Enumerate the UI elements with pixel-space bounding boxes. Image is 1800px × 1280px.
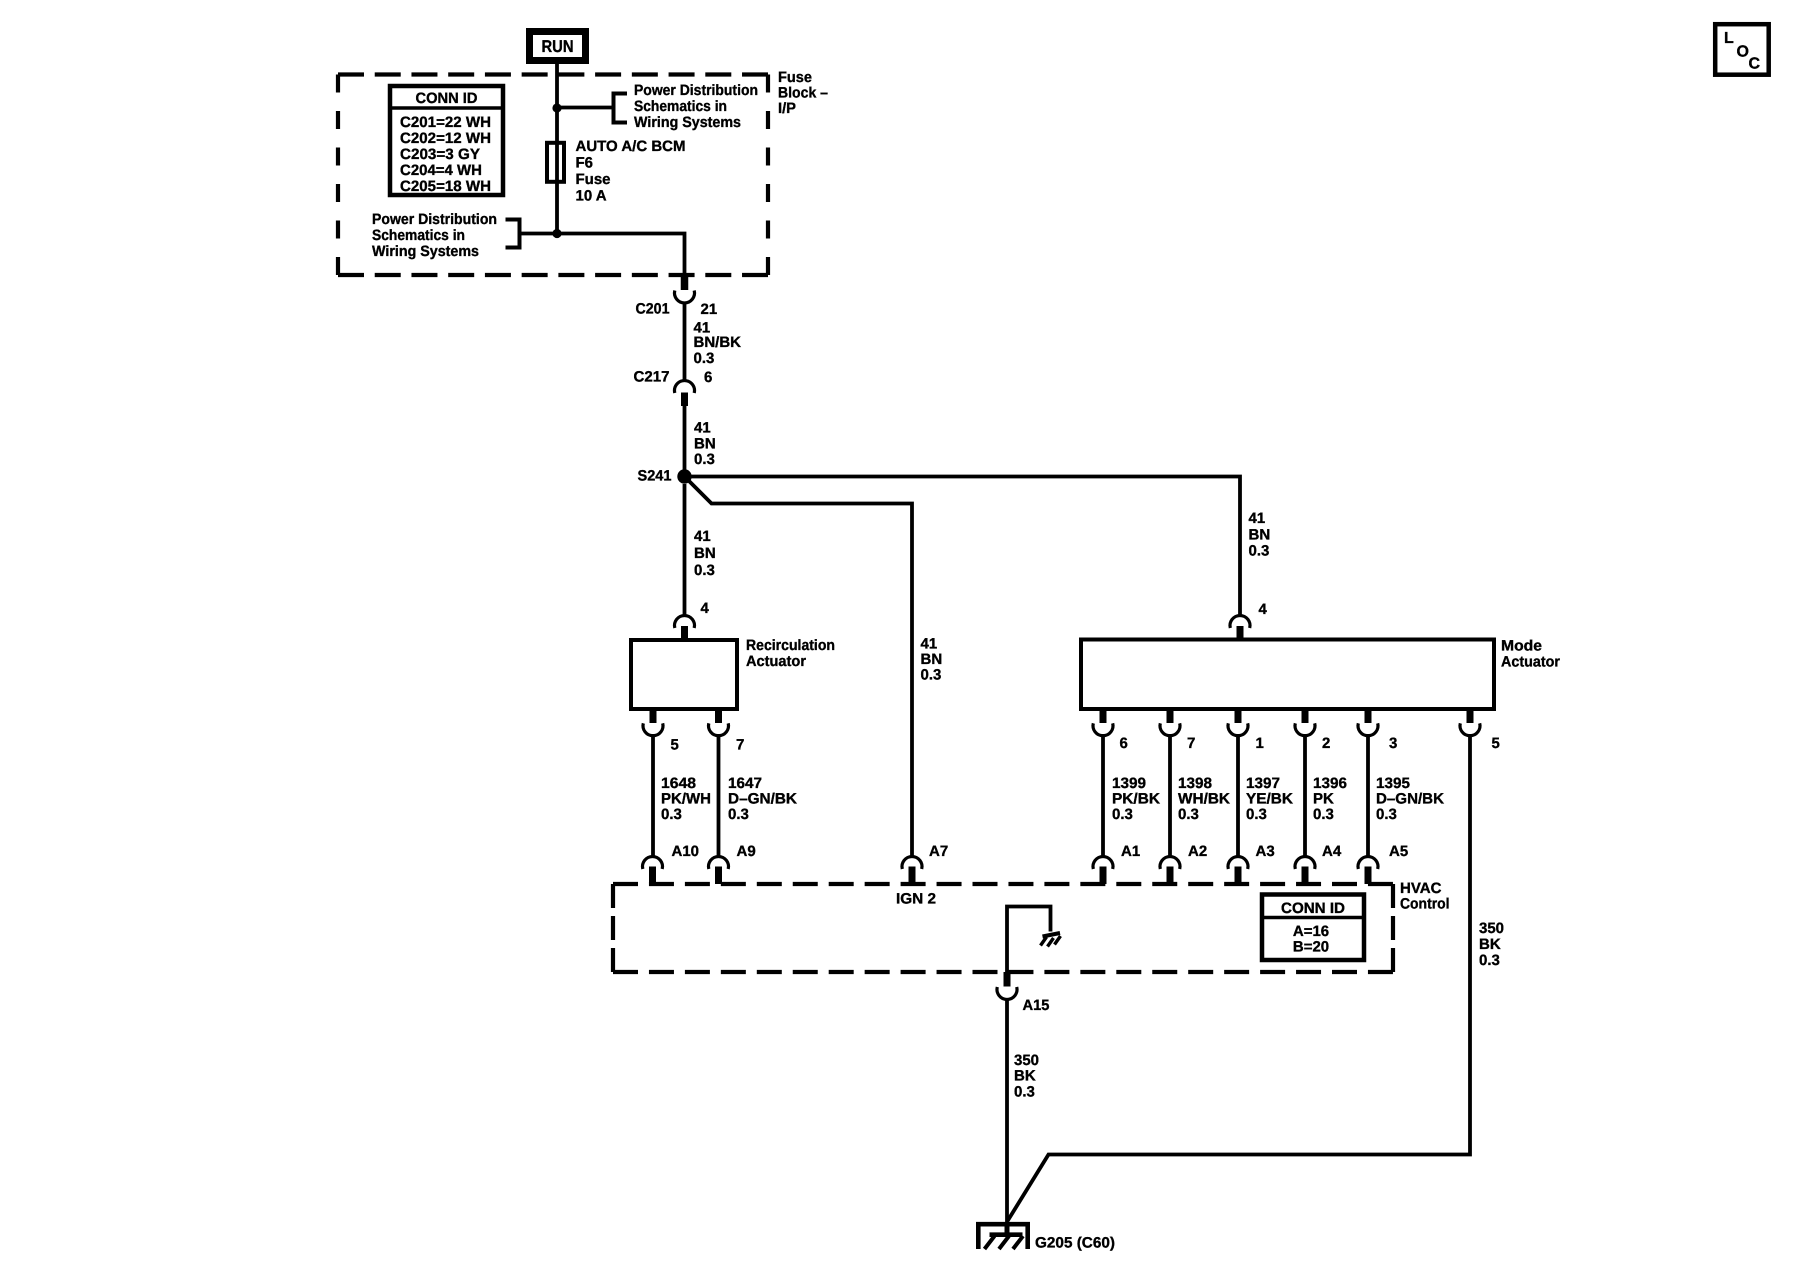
svg-text:7: 7 bbox=[736, 737, 744, 754]
svg-text:A10: A10 bbox=[672, 843, 700, 860]
connector cup at HVAC Control pin A1 bbox=[1093, 857, 1113, 869]
svg-text:BK: BK bbox=[1014, 1068, 1036, 1085]
svg-text:0.3: 0.3 bbox=[728, 806, 749, 823]
svg-text:A=16: A=16 bbox=[1293, 923, 1329, 940]
junction node (RUN feed / Power Distribution tap) bbox=[552, 103, 561, 112]
svg-text:350: 350 bbox=[1479, 920, 1504, 937]
svg-text:PK/WH: PK/WH bbox=[661, 791, 711, 808]
svg-text:0.3: 0.3 bbox=[661, 806, 682, 823]
connector cup at Recirculation Actuator pin 5 bbox=[643, 723, 663, 735]
svg-text:Power Distribution: Power Distribution bbox=[634, 82, 758, 99]
CONN ID table (HVAC Control) bbox=[1262, 895, 1364, 961]
svg-text:41: 41 bbox=[694, 420, 711, 437]
svg-text:Schematics in: Schematics in bbox=[634, 98, 727, 115]
svg-text:AUTO A/C BCM: AUTO A/C BCM bbox=[576, 138, 686, 155]
svg-text:1395: 1395 bbox=[1376, 775, 1410, 792]
svg-text:Fuse: Fuse bbox=[576, 171, 611, 188]
svg-text:A1: A1 bbox=[1121, 843, 1140, 860]
connector cup at HVAC Control pin A10 bbox=[643, 857, 663, 869]
svg-text:A2: A2 bbox=[1188, 843, 1207, 860]
wire: RUN feed down through fuse F6 bbox=[555, 64, 559, 234]
connector cup at HVAC Control pin A7 bbox=[902, 857, 922, 869]
svg-text:A15: A15 bbox=[1023, 997, 1050, 1014]
connector cup at HVAC Control pin A2 bbox=[1160, 857, 1180, 869]
wire: circuit 350 BK, A15 to ground G205 bbox=[1005, 998, 1009, 1222]
wire: circuit 1397 YE/BK, Mode Actuator to HVAC Control A3 bbox=[1236, 734, 1240, 858]
svg-text:0.3: 0.3 bbox=[694, 562, 715, 579]
svg-text:1647: 1647 bbox=[728, 775, 762, 792]
wire: circuit 41 BN/BK, C201 to C217 bbox=[683, 302, 687, 382]
svg-text:Wiring Systems: Wiring Systems bbox=[634, 114, 741, 131]
connector cup at Mode Actuator pin 2 bbox=[1295, 723, 1315, 735]
svg-text:BN: BN bbox=[694, 436, 716, 453]
svg-text:0.3: 0.3 bbox=[1313, 806, 1334, 823]
wire: circuit 41 BN, S241 to HVAC Control pin A7 bbox=[689, 481, 912, 858]
connector cup at HVAC Control pin A3 bbox=[1228, 857, 1248, 869]
bracket: Power Distribution reference (lower) bbox=[506, 220, 520, 248]
connector cup at Mode Actuator pin 4 bbox=[1230, 616, 1250, 628]
svg-text:PK: PK bbox=[1313, 791, 1334, 808]
wire: circuit 1396 PK, Mode Actuator to HVAC Control A4 bbox=[1303, 734, 1307, 858]
svg-text:Recirculation: Recirculation bbox=[746, 637, 835, 654]
svg-text:4: 4 bbox=[701, 600, 710, 617]
male pin 7 of Mode Actuator bbox=[1167, 709, 1174, 723]
svg-text:0.3: 0.3 bbox=[1479, 952, 1500, 969]
svg-text:C203=3 GY: C203=3 GY bbox=[400, 146, 480, 163]
svg-text:7: 7 bbox=[1187, 735, 1195, 752]
svg-text:F6: F6 bbox=[576, 155, 594, 172]
svg-text:6: 6 bbox=[1120, 735, 1128, 752]
splice S241 bbox=[677, 469, 691, 483]
svg-text:HVAC: HVAC bbox=[1400, 880, 1442, 897]
male pin A1 of HVAC Control bbox=[1100, 867, 1107, 885]
svg-text:CONN ID: CONN ID bbox=[416, 90, 478, 107]
connector cup at HVAC Control pin A4 bbox=[1295, 857, 1315, 869]
male pin A7 of HVAC Control bbox=[909, 867, 916, 885]
svg-text:3: 3 bbox=[1389, 735, 1397, 752]
svg-text:C217: C217 bbox=[634, 369, 670, 386]
svg-text:10 A: 10 A bbox=[576, 188, 607, 205]
connector C217 female cup bbox=[675, 381, 695, 393]
wire: circuit 1398 WH/BK, Mode Actuator to HVAC Control A2 bbox=[1168, 734, 1172, 858]
junction node (fuse output / Power Distribution) bbox=[552, 229, 561, 238]
male pin A4 of HVAC Control bbox=[1302, 867, 1309, 885]
male pin 5 of Mode Actuator bbox=[1467, 709, 1474, 723]
CONN ID table (Fuse Block) bbox=[390, 86, 503, 195]
male pin 6 of Mode Actuator bbox=[1100, 709, 1107, 723]
svg-text:0.3: 0.3 bbox=[921, 667, 942, 684]
Recirculation Actuator box bbox=[631, 640, 737, 709]
svg-text:Actuator: Actuator bbox=[1501, 654, 1560, 671]
svg-text:Power Distribution: Power Distribution bbox=[372, 211, 497, 228]
male pin A15 of HVAC Control bbox=[1004, 972, 1011, 987]
svg-text:BN/BK: BN/BK bbox=[694, 334, 742, 351]
bracket: Power Distribution reference (upper) bbox=[614, 94, 628, 123]
svg-text:Mode: Mode bbox=[1501, 638, 1542, 655]
svg-text:D–GN/BK: D–GN/BK bbox=[728, 791, 797, 808]
wire: circuit 1399 PK/BK, Mode Actuator to HVAC Control A1 bbox=[1101, 734, 1105, 858]
svg-text:0.3: 0.3 bbox=[1376, 806, 1397, 823]
svg-text:Wiring Systems: Wiring Systems bbox=[372, 243, 479, 260]
male pin 3 of Mode Actuator bbox=[1365, 709, 1372, 723]
connector cup at Mode Actuator pin 6 bbox=[1093, 723, 1113, 735]
svg-text:BK: BK bbox=[1479, 936, 1501, 953]
wire: circuit 41 BN, S241 to Mode Actuator pin 4 bbox=[691, 477, 1240, 617]
male pin 4 of Recirculation Actuator bbox=[681, 626, 688, 640]
svg-text:IGN 2: IGN 2 bbox=[896, 891, 936, 908]
svg-text:WH/BK: WH/BK bbox=[1178, 791, 1230, 808]
svg-text:4: 4 bbox=[1259, 601, 1268, 618]
connector cup at HVAC Control pin A5 bbox=[1358, 857, 1378, 869]
wire: circuit 350 BK, Mode Actuator pin 5 to ground G205 bbox=[1008, 734, 1471, 1221]
svg-text:0.3: 0.3 bbox=[694, 451, 715, 468]
svg-text:C204=4 WH: C204=4 WH bbox=[400, 162, 482, 179]
wire: HVAC Control internal ground path bbox=[1007, 907, 1051, 973]
svg-text:6: 6 bbox=[704, 369, 712, 386]
connector cup at Recirculation Actuator pin 4 bbox=[675, 616, 695, 628]
svg-text:A3: A3 bbox=[1256, 843, 1275, 860]
svg-text:0.3: 0.3 bbox=[1246, 806, 1267, 823]
svg-text:350: 350 bbox=[1014, 1052, 1039, 1069]
svg-text:41: 41 bbox=[921, 636, 938, 653]
male pin 2 of Mode Actuator bbox=[1302, 709, 1309, 723]
male pin 5 of Recirculation Actuator bbox=[650, 709, 657, 723]
ignition switch position box RUN bbox=[530, 32, 586, 61]
svg-text:O: O bbox=[1737, 44, 1749, 61]
wire: circuit 41 BN, C217 to splice S241 bbox=[683, 406, 687, 470]
svg-text:41: 41 bbox=[1249, 510, 1266, 527]
connector cup at Recirculation Actuator pin 7 bbox=[709, 723, 729, 735]
svg-text:BN: BN bbox=[694, 545, 716, 562]
svg-text:1399: 1399 bbox=[1112, 775, 1146, 792]
svg-text:A7: A7 bbox=[929, 843, 948, 860]
svg-text:A9: A9 bbox=[737, 843, 756, 860]
svg-text:21: 21 bbox=[701, 301, 718, 318]
wire: circuit 1648 PK/WH, pin 5 to HVAC Control A10 bbox=[651, 734, 655, 858]
svg-text:A4: A4 bbox=[1322, 843, 1342, 860]
svg-text:CONN ID: CONN ID bbox=[1281, 900, 1345, 917]
connector cup at HVAC Control pin A15 bbox=[997, 987, 1017, 999]
svg-text:Actuator: Actuator bbox=[746, 653, 806, 670]
svg-text:0.3: 0.3 bbox=[1249, 543, 1270, 560]
HVAC Control dashed boundary bbox=[613, 882, 1393, 886]
wire: fuse output to connector C201 bbox=[520, 234, 685, 277]
Fuse Block - I/P dashed boundary bbox=[338, 72, 768, 76]
Mode Actuator box bbox=[1081, 640, 1494, 710]
svg-text:A5: A5 bbox=[1389, 843, 1408, 860]
svg-text:1648: 1648 bbox=[661, 775, 696, 792]
svg-text:D–GN/BK: D–GN/BK bbox=[1376, 791, 1444, 808]
ground G205 (C60) symbol bbox=[978, 1224, 1027, 1249]
svg-text:0.3: 0.3 bbox=[1112, 806, 1133, 823]
svg-text:1396: 1396 bbox=[1313, 775, 1347, 792]
fuse F6 AUTO A/C BCM 10 A bbox=[547, 143, 564, 182]
svg-text:1397: 1397 bbox=[1246, 775, 1280, 792]
connector C201 male pin (pin 21) bbox=[681, 276, 689, 290]
connector cup at HVAC Control pin A9 bbox=[709, 857, 729, 869]
connector C217 male pin (pin 6) bbox=[681, 393, 688, 407]
svg-text:C205=18 WH: C205=18 WH bbox=[400, 178, 491, 195]
wire: tap to Power Distribution note bbox=[557, 106, 612, 110]
svg-text:BN: BN bbox=[1249, 527, 1271, 544]
male pin 4 of Mode Actuator bbox=[1237, 626, 1244, 640]
svg-text:C201: C201 bbox=[636, 301, 670, 318]
svg-text:0.3: 0.3 bbox=[1178, 806, 1199, 823]
svg-text:C202=12 WH: C202=12 WH bbox=[400, 130, 491, 147]
connector C201 female cup bbox=[675, 291, 695, 303]
LOC reference stamp box bbox=[1715, 24, 1769, 74]
male pin A2 of HVAC Control bbox=[1167, 867, 1174, 885]
svg-text:S241: S241 bbox=[638, 468, 672, 485]
svg-text:5: 5 bbox=[671, 737, 679, 754]
male pin A9 of HVAC Control bbox=[715, 867, 722, 885]
connector cup at Mode Actuator pin 7 bbox=[1160, 723, 1180, 735]
svg-text:YE/BK: YE/BK bbox=[1246, 791, 1293, 808]
svg-text:C201=22 WH: C201=22 WH bbox=[400, 114, 491, 131]
male pin 1 of Mode Actuator bbox=[1235, 709, 1242, 723]
connector cup at Mode Actuator pin 3 bbox=[1358, 723, 1378, 735]
svg-text:PK/BK: PK/BK bbox=[1112, 791, 1160, 808]
wire: circuit 1395 D–GN/BK, Mode Actuator to HVAC Control A5 bbox=[1366, 734, 1370, 858]
svg-text:G205 (C60): G205 (C60) bbox=[1035, 1235, 1115, 1252]
svg-text:1: 1 bbox=[1256, 735, 1264, 752]
male pin A5 of HVAC Control bbox=[1365, 867, 1372, 885]
male pin A3 of HVAC Control bbox=[1235, 867, 1242, 885]
connector cup at Mode Actuator pin 1 bbox=[1228, 723, 1248, 735]
svg-text:L: L bbox=[1724, 30, 1734, 47]
connector cup at Mode Actuator pin 5 bbox=[1460, 723, 1480, 735]
svg-text:Control: Control bbox=[1400, 896, 1450, 913]
svg-text:0.3: 0.3 bbox=[1014, 1084, 1035, 1101]
svg-text:C: C bbox=[1749, 56, 1761, 73]
svg-text:B=20: B=20 bbox=[1293, 939, 1329, 956]
svg-text:1398: 1398 bbox=[1178, 775, 1212, 792]
svg-text:BN: BN bbox=[921, 651, 943, 668]
svg-text:2: 2 bbox=[1322, 735, 1330, 752]
svg-text:Fuse: Fuse bbox=[778, 69, 812, 86]
svg-text:0.3: 0.3 bbox=[694, 350, 715, 367]
wire: circuit 41 BN, S241 to Recirculation Actuator pin 4 bbox=[683, 484, 687, 616]
male pin 7 of Recirculation Actuator bbox=[715, 709, 722, 723]
internal ground symbol (HVAC Control) bbox=[1043, 933, 1061, 937]
svg-text:I/P: I/P bbox=[778, 100, 796, 117]
svg-text:Schematics in: Schematics in bbox=[372, 227, 465, 244]
male pin A10 of HVAC Control bbox=[649, 867, 656, 885]
svg-text:RUN: RUN bbox=[542, 37, 574, 56]
svg-text:Block –: Block – bbox=[778, 85, 828, 102]
svg-text:5: 5 bbox=[1492, 735, 1500, 752]
svg-text:41: 41 bbox=[694, 528, 711, 545]
wire: circuit 1647 D-GN/BK, pin 7 to HVAC Control A9 bbox=[717, 734, 721, 858]
